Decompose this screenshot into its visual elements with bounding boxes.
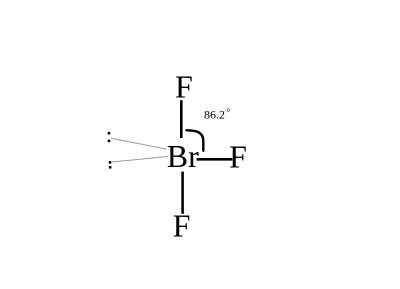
lone pair upper dot 2 bbox=[108, 140, 111, 143]
svg-text:Br: Br bbox=[167, 138, 199, 174]
svg-text:F: F bbox=[173, 208, 191, 244]
svg-text:F: F bbox=[229, 138, 247, 174]
leader line lower lone pair to Br bbox=[112, 157, 168, 163]
wire bond Br-F right bbox=[197, 158, 233, 161]
wire bond Br-F top bbox=[180, 100, 183, 138]
lone pair lower dot 2 bbox=[109, 166, 112, 169]
lone pair lower dot 1 bbox=[109, 161, 112, 164]
lone pair upper dot 1 bbox=[108, 132, 111, 135]
leader line upper lone pair to Br bbox=[111, 138, 167, 149]
svg-text:86.2°: 86.2° bbox=[204, 107, 230, 121]
bond angle arc bbox=[187, 130, 204, 151]
svg-text:F: F bbox=[175, 68, 193, 104]
wire bond Br-F bottom bbox=[181, 172, 184, 214]
